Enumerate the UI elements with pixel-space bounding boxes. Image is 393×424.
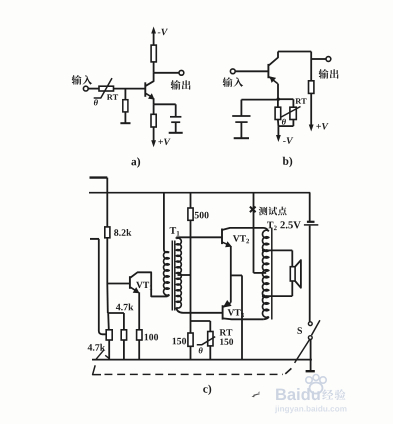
test point label 测试点 <box>259 207 287 216</box>
+V supply arrow (circuit b) <box>310 124 312 127</box>
wire to output terminal (circuit b) <box>311 58 326 60</box>
T1 label <box>170 227 176 234</box>
label b) <box>283 157 293 167</box>
transistor b base bar <box>267 64 269 78</box>
T1 secondary bottom wire to VT3 base <box>176 308 222 313</box>
T2 bottom curve <box>263 317 269 320</box>
transistor a base bar <box>144 82 146 97</box>
wire rail down to resistor (circuit b) <box>310 52 312 81</box>
T2 lower tap dot <box>262 294 265 297</box>
VT3 label <box>228 309 241 315</box>
transistor b emitter with arrow <box>269 77 278 84</box>
baidu watermark paw <box>306 377 312 383</box>
dashed boundary diagonal dash <box>285 368 291 374</box>
base resistor (circuit a) <box>124 89 126 100</box>
small scribble mark <box>252 395 255 397</box>
T1 primary bottom lead <box>151 295 169 297</box>
output terminal (circuit a) <box>179 70 184 75</box>
transistor b collector <box>269 52 278 66</box>
2.5V label <box>280 221 300 228</box>
resistor 100 body <box>137 330 142 340</box>
bias divider wire (500 to 150) <box>190 220 192 333</box>
capacitor lower lead and bar (circuit a) <box>175 122 177 133</box>
VT1 label <box>136 282 149 288</box>
wire collector to output <box>154 72 180 74</box>
transistor a collector <box>146 73 154 86</box>
resistor 4.7k body <box>121 330 126 340</box>
switch S blade <box>312 320 320 335</box>
emitter resistor (circuit a) <box>153 104 155 114</box>
500 label <box>195 212 209 219</box>
capacitor (circuit a) <box>170 116 181 118</box>
output terminal (circuit b) <box>326 57 331 62</box>
VT1 base wire <box>107 283 130 285</box>
-V label (circuit a) <box>158 29 168 36</box>
wire to RT (circuit b) <box>278 98 293 100</box>
-V label (circuit b) <box>283 137 293 144</box>
T1 core <box>171 241 173 311</box>
theta label (circuit a) <box>94 99 98 105</box>
baidu watermark 经验 <box>322 389 345 400</box>
+V supply arrow (circuit a) <box>153 127 155 142</box>
left stub 2 (circuit c) <box>90 238 99 240</box>
output label 输出 (circuit b) <box>319 69 339 79</box>
thermistor RT (circuit a) body <box>99 86 114 91</box>
wire collector rail (circuit b) <box>278 51 311 53</box>
VT1 collector <box>130 272 167 296</box>
VT2 label <box>233 235 246 241</box>
capacitor (circuit b) <box>232 115 250 117</box>
resistor 500 body <box>190 193 192 208</box>
pot 4.7k wiper arrow <box>96 350 104 360</box>
capacitor lower lead and bar (circuit b) <box>240 122 242 138</box>
test point X mark <box>250 207 256 213</box>
-V supply arrow (circuit b) <box>277 126 279 137</box>
emitter resistor (circuit b) <box>277 99 279 107</box>
wire stub down to rail and 8.2k <box>106 178 108 227</box>
circuit b) input label 输入 <box>223 77 244 87</box>
T2 upper tap dot <box>262 249 265 252</box>
base resistor terminal bar <box>120 122 130 124</box>
speaker upper wire <box>264 249 293 251</box>
stub2 wire down to 4.7k pot <box>99 239 106 334</box>
top-left stub bar (circuit c) <box>90 176 108 178</box>
battery 2.5V <box>309 193 311 221</box>
150 label (RT) <box>220 339 233 345</box>
linkage diagonal to switch <box>295 339 310 363</box>
100 label <box>145 334 159 341</box>
T1 secondary top wire to VT2 base <box>176 236 222 238</box>
T2 center tap wire <box>254 272 267 274</box>
-V supply arrow (circuit a) <box>153 32 155 46</box>
output label 输出 (circuit a) <box>171 80 191 90</box>
wire to RT (circuit c) <box>191 320 211 322</box>
thermistor RT (circuit a) diagonal with foot <box>94 78 112 98</box>
test point wire <box>253 193 255 273</box>
T2 label <box>267 222 273 229</box>
thermistor RT diagonal (circuit b) <box>281 107 300 118</box>
label c) <box>203 385 211 395</box>
VT2 emitter with arrow <box>222 242 229 245</box>
switch S top contact <box>308 322 312 326</box>
label a) <box>131 157 140 167</box>
VT2 collector <box>222 228 263 230</box>
emitter tie wire to ground <box>231 274 242 276</box>
speaker <box>290 267 295 281</box>
left bias chain wire <box>106 238 108 284</box>
bottom join wire (circuit b) <box>278 125 293 127</box>
wire RT to base <box>114 88 146 90</box>
wire node to capacitor (circuit b) <box>241 99 278 101</box>
circuit b) input terminal <box>230 69 235 74</box>
VT1 emitter with arrow <box>130 287 136 291</box>
transistor VT3 base bar <box>222 305 224 319</box>
theta label (circuit b) <box>282 119 286 125</box>
T1 primary lead from rail <box>164 193 169 253</box>
+V label (circuit a) <box>158 139 170 146</box>
switch S bottom contact <box>308 336 312 340</box>
VT3 collector <box>223 317 263 320</box>
ground symbol <box>306 370 315 372</box>
+V label (circuit b) <box>316 123 328 130</box>
circuit a) input label 输入 <box>72 75 93 85</box>
wire input to base (circuit b) <box>235 70 268 72</box>
8.2k label <box>114 229 131 236</box>
thermistor RT diagonal (circuit c) <box>197 337 215 345</box>
pot 4.7k lower lead <box>108 340 110 360</box>
dashed boundary line <box>105 373 284 375</box>
theta label (circuit c) <box>199 347 203 353</box>
S label <box>298 327 303 334</box>
wire input to RT <box>88 88 99 90</box>
RT label (circuit c) <box>220 329 233 335</box>
switch to ground wire <box>310 340 312 371</box>
T1 secondary winding <box>176 238 181 308</box>
RT label (circuit b) <box>295 98 306 103</box>
emitter node dot (circuit b) <box>277 98 280 101</box>
dashed boundary left end <box>93 365 101 374</box>
transistor a emitter with arrow <box>146 93 152 97</box>
baidu watermark url <box>275 406 347 414</box>
pot 4.7k label <box>88 344 106 351</box>
wire emitter node to capacitor <box>154 103 176 105</box>
top supply rail (circuit c) <box>89 192 310 194</box>
transistor VT2 base bar <box>221 229 223 245</box>
load resistor (circuit b) <box>309 81 314 94</box>
150 label (left) <box>173 338 187 345</box>
potentiometer 4.7k body <box>106 330 112 340</box>
circuit a) input terminal <box>83 86 88 91</box>
bottom rail (circuit c) <box>92 359 312 361</box>
speaker lower wire <box>264 295 293 297</box>
baidu watermark text <box>276 388 320 400</box>
T2 core <box>271 228 273 320</box>
resistor 150 body <box>188 333 193 346</box>
transistor VT1 base bar <box>129 276 131 289</box>
thermistor RT body (circuit b) <box>290 107 296 119</box>
4.7k label <box>116 304 134 311</box>
resistor 8.2k body <box>105 227 110 238</box>
T1 primary winding <box>164 252 170 296</box>
thermistor RT body (circuit c) <box>208 332 213 346</box>
VT2 collector to T2 top <box>264 228 269 232</box>
T2 winding <box>262 230 268 317</box>
T1 center tap wire <box>178 274 191 276</box>
RT label (circuit a) <box>107 94 118 99</box>
VT3 emitter with arrow <box>223 303 231 307</box>
bias tee wire to 4.7k resistor <box>108 312 124 314</box>
collector resistor (circuit a) <box>153 62 155 73</box>
